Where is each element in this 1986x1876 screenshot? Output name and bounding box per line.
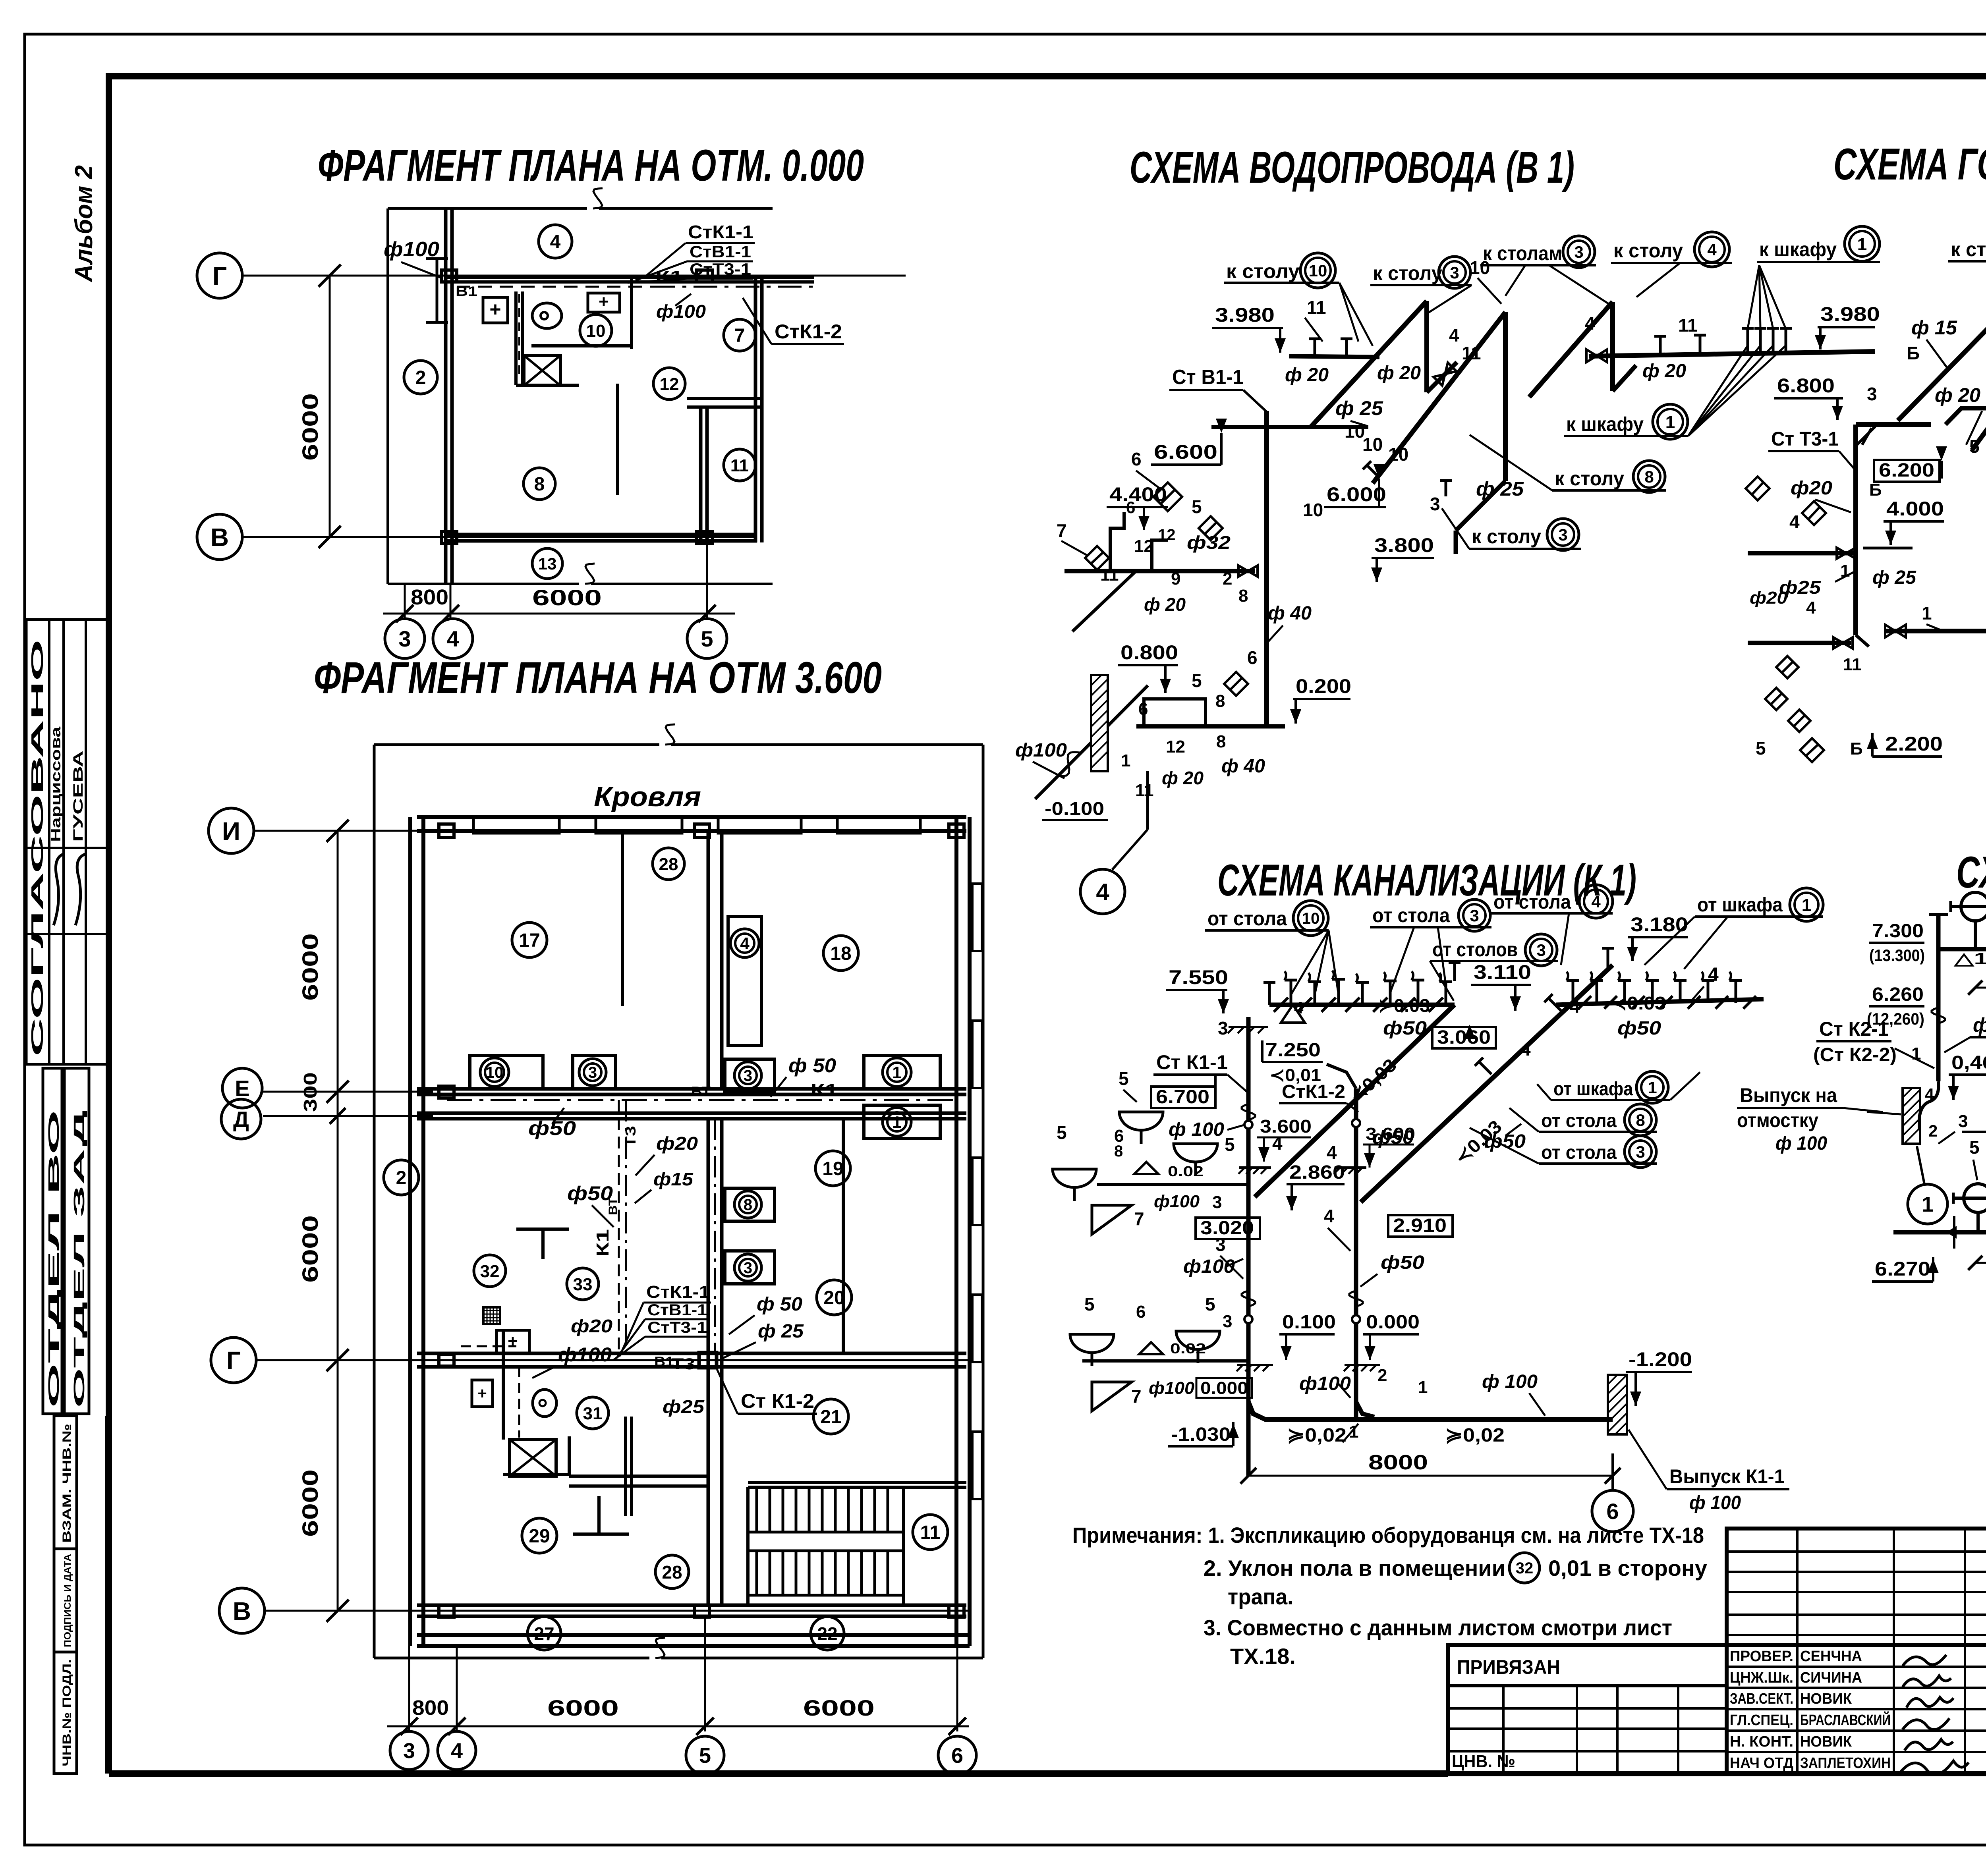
svg-text:21: 21 — [820, 1407, 841, 1428]
svg-text:3: 3 — [1536, 941, 1546, 959]
svg-text:4: 4 — [740, 934, 750, 953]
svg-text:ф50: ф50 — [528, 1117, 576, 1139]
small plan left cut line — [386, 208, 389, 584]
svg-text:ф 50: ф 50 — [788, 1054, 836, 1077]
svg-text:3: 3 — [1636, 1143, 1645, 1161]
svg-text:-0.100: -0.100 — [1045, 798, 1104, 819]
svg-text:0.02: 0.02 — [1168, 1163, 1204, 1179]
room circle 21 — [813, 1399, 848, 1434]
svg-text:СОГЛАСОВАНО: СОГЛАСОВАНО — [28, 639, 46, 1056]
schema B1 horizontal pipe y897 — [1289, 356, 1379, 357]
room circle 31 — [577, 1397, 609, 1429]
leader Выпуск to upper outlet — [1867, 1112, 1901, 1114]
svg-text:ф100: ф100 — [384, 238, 439, 261]
axis И line — [254, 830, 421, 832]
svg-text:СтТ3-1: СтТ3-1 — [647, 1319, 707, 1336]
svg-text:3: 3 — [1450, 263, 1459, 282]
svg-text:12: 12 — [1166, 737, 1185, 757]
side stamp ПОДПИСЬ И ДАТА box — [54, 1549, 77, 1652]
svg-text:7.300: 7.300 — [1872, 921, 1924, 942]
axis circle 4 schema B1 — [1080, 869, 1125, 914]
schema K2 left outlet bend — [1919, 1081, 1939, 1129]
svg-text:3: 3 — [1223, 1312, 1232, 1331]
svg-text:ф100: ф100 — [1015, 740, 1067, 761]
svg-text:7: 7 — [1057, 520, 1067, 541]
svg-text:ф 20: ф 20 — [1642, 361, 1686, 382]
axis line Г small plan — [242, 275, 906, 277]
svg-text:1: 1 — [1911, 1044, 1921, 1063]
svg-text:4: 4 — [1449, 325, 1459, 345]
schema K1 fixtures group B — [1070, 1294, 1252, 1446]
riser2 top bend — [1327, 1064, 1356, 1089]
svg-text:1: 1 — [1922, 603, 1932, 623]
svg-text:13: 13 — [538, 554, 557, 573]
axis circle И — [209, 808, 254, 853]
riser top tick mark — [1855, 427, 1875, 447]
svg-text:Т3: Т3 — [671, 1355, 695, 1373]
svg-text:4: 4 — [1789, 511, 1800, 532]
schema K2 left riser upper — [1936, 915, 1941, 1081]
svg-text:Ст К1-2: Ст К1-2 — [741, 1390, 814, 1412]
svg-text:ф 40: ф 40 — [1268, 603, 1312, 624]
svg-text:ф 100: ф 100 — [1689, 1492, 1741, 1513]
svg-text:ФРАГМЕНТ ПЛАНА НА ОТМ 3.60: ФРАГМЕНТ ПЛАНА НА ОТМ 3.600 — [314, 653, 882, 703]
pipe dash В1 small plan — [457, 286, 651, 288]
schema B1 vertical drop 2 — [1503, 312, 1508, 481]
svg-text:11: 11 — [1678, 315, 1698, 336]
svg-text:29: 29 — [529, 1526, 550, 1547]
room circle 19 — [815, 1151, 850, 1186]
svg-text:НОВИК: НОВИК — [1800, 1691, 1852, 1707]
svg-text:11: 11 — [1135, 781, 1154, 800]
svg-text:3: 3 — [1430, 494, 1440, 514]
svg-text:8: 8 — [1238, 586, 1248, 606]
svg-text:Т3: Т3 — [622, 1126, 639, 1148]
schema T3 step below — [1945, 383, 1986, 425]
svg-text:6: 6 — [1606, 1499, 1619, 1524]
svg-text:к столу: к столу — [1555, 467, 1624, 490]
svg-text:≺0.03: ≺0.03 — [1610, 993, 1666, 1013]
svg-text:3.110: 3.110 — [1474, 961, 1531, 983]
svg-text:СтК1-2: СтК1-2 — [775, 320, 842, 343]
schema T3 riser vertical — [1853, 425, 1858, 635]
svg-text:8: 8 — [534, 474, 545, 495]
svg-text:ф25: ф25 — [663, 1396, 705, 1417]
partition wall vertical small plan — [514, 291, 518, 385]
schema B1 lower cluster 0.800 — [1118, 641, 1258, 726]
svg-text:6.270: 6.270 — [1875, 1258, 1930, 1280]
axis circle 5 small plan bottom — [687, 619, 727, 658]
svg-text:ЗАПЛЕТОХИН: ЗАПЛЕТОХИН — [1800, 1755, 1891, 1772]
circle 1 double K1mid — [1636, 1071, 1668, 1103]
small plan bottom cut line with break — [388, 583, 579, 585]
svg-text:В1: В1 — [456, 284, 477, 299]
axis circle В big plan — [219, 1588, 265, 1633]
schema B1 right horizontal main — [1589, 351, 1875, 356]
room circle 33 — [567, 1268, 599, 1300]
axis Г line big plan — [256, 1359, 970, 1361]
svg-text:СЕНЧНА: СЕНЧНА — [1800, 1648, 1862, 1665]
svg-text:4: 4 — [1096, 879, 1109, 905]
room circle 8 small — [524, 468, 555, 500]
svg-text:11: 11 — [1307, 297, 1326, 318]
svg-text:ЦНЖ.Шк.: ЦНЖ.Шк. — [1730, 1669, 1793, 1686]
svg-text:1: 1 — [892, 1113, 901, 1131]
svg-text:СХЕМА ВОДОСТОКОВ (К 2): СХЕМА ВОДОСТОКОВ (К 2) — [1956, 847, 1986, 897]
svg-text:2: 2 — [1377, 1366, 1387, 1385]
svg-text:1: 1 — [1802, 896, 1811, 915]
schema K2 roof funnel 1 — [1961, 892, 1986, 921]
svg-text:ф100: ф100 — [1154, 1192, 1200, 1211]
svg-text:4: 4 — [1327, 1142, 1337, 1163]
svg-text:ф50: ф50 — [1617, 1018, 1661, 1039]
dashed pipe vertical sanitary — [518, 1367, 520, 1438]
room circle 27 — [527, 1617, 561, 1650]
schema K1 riser СтК1-1 — [1246, 1017, 1251, 1476]
svg-text:5: 5 — [1205, 1294, 1215, 1314]
schema K1 top pipe chain 2 — [1556, 999, 1764, 1005]
svg-text:ф20: ф20 — [1750, 588, 1788, 608]
circle 6 axis K1 — [1592, 1490, 1633, 1532]
svg-text:Ст В1-1: Ст В1-1 — [1172, 366, 1244, 389]
circle 8 double K1 — [1625, 1104, 1656, 1136]
fan от шкафа — [1644, 917, 1695, 965]
svg-text:1: 1 — [1418, 1378, 1428, 1397]
svg-text:(Ст К2-2): (Ст К2-2) — [1813, 1044, 1897, 1065]
svg-text:3.020: 3.020 — [1200, 1218, 1254, 1239]
svg-text:8: 8 — [744, 1196, 752, 1214]
svg-text:2.910: 2.910 — [1393, 1215, 1447, 1236]
equip rect 8 center — [725, 1188, 775, 1221]
svg-text:СтК1-1: СтК1-1 — [646, 1282, 710, 1302]
svg-text:7: 7 — [734, 325, 745, 346]
wall stub y871 small plan — [531, 344, 632, 347]
svg-text:22: 22 — [817, 1623, 837, 1644]
fan lines from lower шкаф label — [1688, 345, 1748, 436]
axis node squares on В small plan — [442, 531, 457, 543]
svg-text:-1.030: -1.030 — [1171, 1424, 1231, 1445]
svg-text:Альбом 2: Альбом 2 — [70, 165, 98, 283]
axis circle Г small plan — [197, 253, 242, 298]
svg-text:3.800: 3.800 — [1374, 534, 1434, 556]
svg-text:ОТДЕЛ ВО: ОТДЕЛ ВО — [46, 1110, 62, 1408]
svg-text:6: 6 — [1131, 449, 1142, 469]
node circle riser2 0.000 — [1352, 1315, 1360, 1323]
svg-text:3: 3 — [588, 1064, 597, 1081]
svg-text:ф100: ф100 — [656, 301, 706, 322]
circle 1 double шкаф lower — [1653, 404, 1688, 439]
fan от стола 10 — [1291, 930, 1329, 995]
svg-text:12: 12 — [660, 374, 679, 394]
side stamp ОТДЕЛ ВО box — [43, 1068, 62, 1414]
svg-text:4: 4 — [1925, 1085, 1934, 1104]
axis circle 5 big plan — [686, 1736, 724, 1774]
svg-text:3.600: 3.600 — [1366, 1124, 1415, 1144]
schema B1 vertical drop 3 — [1610, 302, 1615, 391]
svg-text:11: 11 — [730, 456, 749, 475]
svg-text:ф100: ф100 — [1299, 1373, 1351, 1394]
svg-text:ф 20: ф 20 — [1162, 768, 1204, 788]
equip tall rect 4 — [728, 917, 761, 1046]
svg-text:4: 4 — [1806, 598, 1816, 618]
svg-text:2: 2 — [1928, 1121, 1938, 1140]
fixture water heater 2 small plan — [588, 293, 620, 312]
svg-text:8: 8 — [1216, 732, 1226, 751]
svg-text:2: 2 — [396, 1168, 407, 1189]
left vertical dimension chain big plan — [337, 831, 339, 1611]
svg-text:≻0.03: ≻0.03 — [1378, 995, 1430, 1016]
svg-text:0.000: 0.000 — [1366, 1312, 1420, 1333]
small plan axis4 wall double — [444, 208, 448, 584]
big plan В wall double — [417, 1604, 966, 1607]
svg-text:19: 19 — [822, 1158, 843, 1179]
fixture heater big plan 2 — [472, 1380, 493, 1407]
notes Примечания block — [1072, 1523, 1707, 1669]
svg-text:ф50: ф50 — [1484, 1131, 1526, 1152]
svg-text:32: 32 — [1516, 1559, 1534, 1577]
wall room31 bottom — [569, 1475, 708, 1478]
schema T3 zigzag diag 2 — [1972, 293, 1986, 450]
svg-text:СтТ3-1: СтТ3-1 — [690, 260, 751, 278]
axis line В small plan — [242, 536, 757, 538]
svg-text:28: 28 — [662, 1562, 682, 1583]
dashed pipe in partition small plan — [518, 294, 520, 379]
svg-text:к столу: к столу — [1613, 239, 1683, 262]
tee 3.180 — [1607, 948, 1609, 968]
axis node square corridor left — [439, 1086, 454, 1098]
svg-text:ВТ: ВТ — [607, 1197, 620, 1215]
svg-text:к столу: к столу — [1373, 262, 1442, 284]
schema T3 zigzag diag 1 — [1898, 302, 1986, 421]
svg-text:ПРОВЕР.: ПРОВЕР. — [1730, 1648, 1793, 1665]
svg-text:5: 5 — [699, 1744, 711, 1768]
circle 1 double шкаф top — [1845, 226, 1880, 261]
privyazan block — [1448, 1645, 1727, 1773]
center wall upper double — [707, 831, 710, 1089]
small plan B wall double — [446, 533, 757, 537]
svg-text:СтК1-1: СтК1-1 — [688, 222, 753, 242]
triangle mark on chain — [1281, 1005, 1305, 1023]
svg-text:Кровля: Кровля — [594, 781, 701, 812]
svg-text:ф 40: ф 40 — [1221, 756, 1265, 777]
node circle riser1 3.600 — [1244, 1121, 1252, 1129]
T wall sanitary right — [573, 1532, 629, 1536]
svg-text:В: В — [233, 1597, 251, 1625]
svg-text:БРАСЛАВСКИЙ: БРАСЛАВСКИЙ — [1800, 1711, 1891, 1729]
svg-text:ф20: ф20 — [571, 1316, 612, 1336]
svg-text:3: 3 — [1867, 384, 1877, 404]
svg-text:800: 800 — [411, 585, 448, 609]
svg-text:≽0,02: ≽0,02 — [1287, 1425, 1347, 1446]
stair well walls — [746, 1487, 750, 1605]
svg-text:ф 20: ф 20 — [1144, 594, 1186, 615]
room circle 2 big — [384, 1160, 419, 1195]
svg-text:к столу: к столу — [1472, 525, 1541, 548]
L wall below sink small plan — [516, 384, 579, 387]
equip table rect 10 big plan — [470, 1056, 543, 1089]
axis Д line — [263, 1115, 433, 1117]
svg-text:Ст К1-1: Ст К1-1 — [1156, 1051, 1228, 1073]
fixture heater big plan 1 — [496, 1330, 529, 1353]
axis circle 3 big plan — [390, 1731, 428, 1770]
schema B1 riser vertical — [1264, 411, 1269, 726]
svg-text:6.800: 6.800 — [1777, 374, 1835, 397]
svg-text:31: 31 — [583, 1404, 603, 1423]
axis circle В small plan — [197, 514, 242, 560]
svg-text:от стола: от стола — [1541, 1110, 1617, 1131]
room circle 18 — [823, 936, 858, 971]
schema B1 vertical drop 1 — [1424, 301, 1429, 392]
svg-text:ВТ: ВТ — [691, 1084, 711, 1099]
floor drain trap square big plan — [483, 1307, 500, 1324]
svg-text:отмостку: отмостку — [1737, 1109, 1818, 1131]
pipe dash К1 small plan — [651, 286, 814, 288]
svg-text:≽0,02: ≽0,02 — [1445, 1425, 1505, 1446]
svg-text:СХЕМА КАНАЛИЗАЦИИ (К 1): СХЕМА КАНАЛИЗАЦИИ (К 1) — [1217, 855, 1636, 905]
svg-text:Е: Е — [235, 1076, 249, 1101]
schema T3 bottom long pipe — [1886, 631, 1986, 700]
partition x1590 small plan — [630, 277, 633, 349]
svg-text:Ст К2-1: Ст К2-1 — [1819, 1018, 1889, 1040]
T wall x1555 small plan — [616, 384, 619, 495]
svg-text:10: 10 — [1309, 261, 1327, 280]
schema K2 upper pipe — [1938, 947, 1986, 952]
svg-text:ЗАВ.СЕКТ.: ЗАВ.СЕКТ. — [1730, 1691, 1793, 1707]
svg-text:4: 4 — [1324, 1206, 1334, 1226]
circle 3 ால double — [1563, 236, 1595, 268]
svg-text:к столам: к столам — [1483, 242, 1562, 264]
room circle 10 small — [580, 315, 612, 346]
svg-text:4: 4 — [1585, 313, 1595, 334]
riser pipe symbol in wall small plan — [436, 259, 439, 322]
svg-text:3: 3 — [1218, 1018, 1228, 1038]
svg-text:ф 20: ф 20 — [1377, 363, 1421, 384]
svg-text:И: И — [222, 817, 240, 845]
svg-text:к шкафу: к шкафу — [1759, 238, 1837, 261]
svg-text:△1: △1 — [1953, 949, 1986, 968]
svg-text:4: 4 — [1591, 892, 1601, 911]
room circle 17 — [512, 923, 547, 957]
svg-text:3: 3 — [744, 1259, 752, 1277]
title block signature rows — [1727, 1645, 1986, 1775]
schema B1 four tees cluster — [1746, 328, 1749, 351]
svg-text:10: 10 — [1302, 910, 1320, 927]
svg-text:10: 10 — [1388, 444, 1408, 465]
svg-text:ф 100: ф 100 — [1973, 1014, 1986, 1036]
svg-text:10: 10 — [486, 1064, 504, 1081]
fixture toilet small plan — [532, 303, 562, 328]
axis circle 4 small plan bottom — [433, 619, 473, 658]
schema B1 diagonal main 3 — [1529, 302, 1613, 397]
svg-text:ф15: ф15 — [653, 1169, 694, 1189]
svg-text:6: 6 — [1136, 1302, 1146, 1322]
svg-text:5: 5 — [1192, 670, 1202, 691]
svg-text:7.250: 7.250 — [1265, 1040, 1321, 1061]
schema K1 bottom main — [1248, 1402, 1613, 1419]
svg-text:5: 5 — [1192, 496, 1202, 517]
schema B1 valve stub — [1427, 362, 1457, 392]
svg-text:ф 100: ф 100 — [1482, 1371, 1538, 1392]
stair treads — [757, 1489, 888, 1595]
svg-text:8: 8 — [1114, 1143, 1123, 1160]
svg-text:2: 2 — [415, 367, 426, 388]
svg-text:7: 7 — [1134, 1208, 1144, 1229]
schema K1 fixtures group A — [1053, 1068, 1248, 1234]
svg-text:6.000: 6.000 — [1327, 483, 1386, 506]
axis circle Е — [222, 1068, 262, 1108]
room circle 4 small — [539, 225, 572, 258]
svg-text:6.260: 6.260 — [1872, 984, 1924, 1005]
svg-text:4: 4 — [1272, 1133, 1283, 1154]
small plan top edge line with break — [388, 207, 587, 210]
stair landing lines — [748, 1531, 904, 1534]
circle 3 double bottom — [1547, 519, 1579, 550]
bottom dimension small plan — [404, 584, 406, 620]
svg-text:6.600: 6.600 — [1154, 441, 1217, 463]
svg-text:6000: 6000 — [298, 1469, 323, 1537]
schema K2 lower funnels — [1964, 1184, 1986, 1212]
big plan bottom wall double — [417, 1633, 970, 1637]
svg-text:6000: 6000 — [547, 1695, 619, 1720]
svg-text:Н. КОНТ.: Н. КОНТ. — [1730, 1733, 1793, 1750]
svg-text:ф50: ф50 — [567, 1182, 613, 1204]
schema B1 elevation line 6.600 — [1211, 425, 1368, 429]
bottom dimension big plan — [408, 1646, 410, 1731]
svg-text:ф 25: ф 25 — [1335, 397, 1383, 419]
svg-text:ф 100: ф 100 — [1169, 1119, 1224, 1140]
svg-text:0.100: 0.100 — [1282, 1312, 1336, 1333]
big plan corridor wall Д double — [417, 1112, 966, 1115]
svg-text:3.060: 3.060 — [1437, 1027, 1491, 1048]
svg-text:от стола: от стола — [1493, 891, 1571, 913]
svg-text:0.02: 0.02 — [1170, 1340, 1206, 1357]
fan lines to шкаф tees from top label — [1748, 265, 1759, 329]
svg-text:ф 25: ф 25 — [758, 1321, 804, 1342]
node circle riser1 0.100 — [1244, 1315, 1252, 1323]
svg-text:ф100: ф100 — [558, 1343, 612, 1366]
dim 8000 — [1248, 1475, 1613, 1477]
schema B1 wall sleeve hatch — [1091, 675, 1108, 771]
small plan top wall Г double — [446, 276, 814, 279]
svg-text:10: 10 — [1345, 421, 1365, 442]
stair room top wall — [748, 1481, 966, 1484]
svg-text:3.980: 3.980 — [1215, 304, 1275, 326]
svg-text:11: 11 — [1462, 343, 1481, 363]
svg-text:3. Совместно с данным листом: 3. Совместно с данным листом смотри лист — [1204, 1615, 1672, 1640]
sink unit with cross small plan — [524, 355, 560, 386]
svg-text:4: 4 — [550, 232, 561, 253]
svg-text:Нарциссова: Нарциссова — [48, 726, 64, 842]
axis node squares В row — [439, 1605, 454, 1617]
big plan roof outline — [374, 724, 983, 1658]
axis node square Г row — [439, 1354, 454, 1366]
sink unit big plan hatch — [510, 1440, 556, 1476]
svg-text:10: 10 — [586, 321, 606, 341]
equip rect 3 center lower — [725, 1251, 775, 1284]
svg-text:ф 20: ф 20 — [1935, 384, 1980, 406]
axis circle Д — [221, 1099, 261, 1139]
svg-text:4: 4 — [451, 1739, 463, 1763]
window rects top wall — [473, 817, 559, 833]
wall rooms 17-28 — [621, 831, 624, 1006]
svg-text:5: 5 — [1225, 1134, 1235, 1155]
schema T3 riser top horizontal — [1856, 422, 1931, 427]
svg-text:Б: Б — [1869, 480, 1882, 500]
svg-text:300: 300 — [300, 1072, 321, 1112]
svg-text:20: 20 — [823, 1287, 844, 1309]
room circle 13 small — [532, 548, 562, 579]
center wall lower double — [707, 1119, 710, 1605]
